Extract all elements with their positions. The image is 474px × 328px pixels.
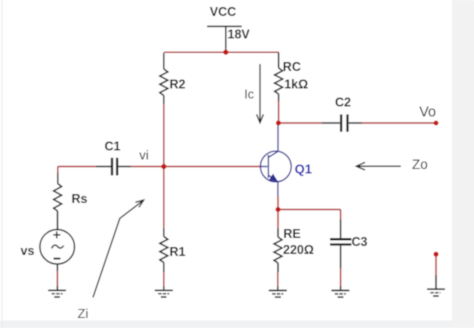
svg-text:Q1: Q1 <box>295 162 312 177</box>
svg-text:18V: 18V <box>228 28 251 42</box>
svg-text:Ic: Ic <box>244 88 254 102</box>
svg-text:RE: RE <box>283 227 300 241</box>
svg-text:C2: C2 <box>335 96 351 110</box>
svg-text:C1: C1 <box>105 140 121 154</box>
svg-text:Rs: Rs <box>72 192 88 206</box>
svg-text:VCC: VCC <box>210 5 236 19</box>
svg-text:Zi: Zi <box>78 306 89 321</box>
svg-text:vs: vs <box>21 244 35 258</box>
svg-text:220Ω: 220Ω <box>283 243 314 257</box>
svg-text:C3: C3 <box>352 235 368 249</box>
svg-text:R1: R1 <box>170 245 186 259</box>
svg-text:R2: R2 <box>170 78 186 92</box>
svg-text:Zo: Zo <box>412 157 428 172</box>
svg-text:vi: vi <box>139 148 149 163</box>
svg-text:1kΩ: 1kΩ <box>284 78 308 92</box>
svg-text:Vo: Vo <box>419 104 436 120</box>
svg-text:RC: RC <box>283 60 301 74</box>
